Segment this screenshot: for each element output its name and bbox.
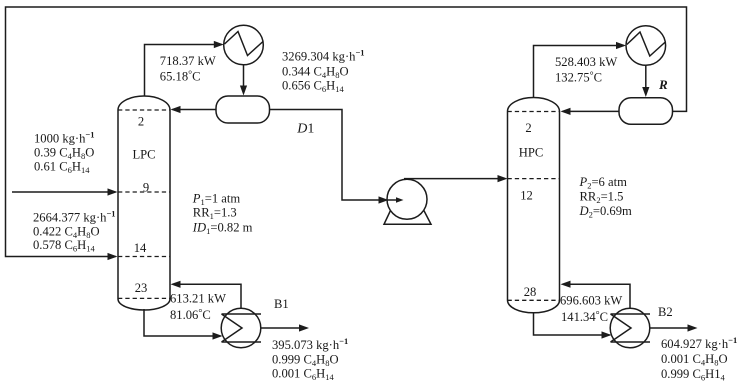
LPC tray 9 dashed line [118, 191, 170, 193]
svg-text:0.001 C6H14: 0.001 C6H14 [272, 366, 335, 382]
HPC top tangent dashed line (stage 2) [508, 111, 560, 113]
wire pump suction stub with arrowheads [379, 196, 404, 203]
wire condenser outlet down into drum R [642, 65, 649, 97]
column HPC shell [508, 98, 560, 313]
svg-text:12: 12 [520, 189, 533, 203]
LPC top tangent dashed line (stage 2) [118, 109, 170, 111]
wire HPC overhead vapor to condenser [534, 42, 627, 98]
svg-text:528.403 kW: 528.403 kW [555, 55, 617, 69]
svg-text:D1: D1 [296, 121, 314, 136]
svg-text:9: 9 [143, 180, 149, 194]
svg-text:B1: B1 [274, 297, 289, 311]
wire reflux from drum to LPC top [171, 106, 217, 113]
condenser (LPC) circle with zigzag [224, 25, 264, 65]
svg-text:1000 kg·h−1: 1000 kg·h−1 [34, 129, 95, 145]
column LPC shell [118, 96, 170, 310]
HPC tray 28 dashed line [508, 299, 560, 301]
reflux drum D1 vessel [216, 96, 270, 123]
svg-text:0.344 C4H8O: 0.344 C4H8O [282, 64, 349, 80]
svg-text:0.001 C4H8O: 0.001 C4H8O [661, 352, 728, 368]
wire B2 bottoms product out [650, 324, 698, 331]
wire pump discharge into HPC tray 12 [404, 175, 508, 182]
svg-text:141.34°C: 141.34°C [561, 310, 608, 324]
reboiler B2 circle [610, 308, 650, 348]
wire B1 vapor return to LPC tray 23 [171, 281, 242, 309]
svg-text:RR1=1.3: RR1=1.3 [193, 206, 237, 222]
label 1000 kg/h feed stream [34, 129, 95, 175]
label 696.603 kW / 141.34 C [560, 293, 622, 323]
svg-text:65.18°C: 65.18°C [160, 70, 201, 84]
reflux drum R vessel [619, 98, 673, 125]
label 604.927 kg/h product stream [661, 335, 737, 382]
reboiler B1 circle [221, 308, 261, 348]
svg-text:0.578 C6H14: 0.578 C6H14 [33, 238, 96, 254]
wire B2 vapor return to HPC tray 28 [561, 281, 631, 309]
svg-text:2: 2 [138, 115, 144, 129]
label 718.37 kW / 65.18 C [160, 54, 216, 84]
svg-text:2664.377 kg·h−1: 2664.377 kg·h−1 [33, 209, 116, 225]
label 2664.377 kg/h recycle stream [33, 209, 116, 254]
pump base mount [384, 202, 431, 224]
svg-text:HPC: HPC [519, 146, 544, 160]
wire HPC bottoms to reboiler B2 [534, 313, 612, 339]
wire reflux from drum R to HPC top [561, 108, 620, 115]
LPC tray 23 dashed line [118, 297, 170, 299]
label 395.073 kg/h product stream [272, 336, 348, 382]
svg-text:LPC: LPC [132, 148, 155, 162]
wire condenser outlet down into reflux drum [240, 65, 247, 96]
svg-text:ID1=0.82 m: ID1=0.82 m [192, 221, 253, 237]
svg-text:81.06°C: 81.06°C [170, 308, 211, 322]
svg-text:23: 23 [135, 281, 148, 295]
label P1 RR1 ID1 [192, 191, 253, 236]
svg-text:718.37 kW: 718.37 kW [160, 54, 216, 68]
svg-text:R: R [658, 77, 668, 92]
wire LPC bottoms to reboiler B1 [144, 309, 223, 340]
svg-text:2: 2 [525, 121, 531, 135]
svg-text:P2=6 atm: P2=6 atm [579, 175, 628, 191]
label 613.21 kW / 81.06 C [170, 291, 226, 322]
svg-text:395.073 kg·h−1: 395.073 kg·h−1 [272, 336, 348, 352]
wire B1 bottoms product out [261, 324, 309, 331]
svg-text:696.603 kW: 696.603 kW [560, 293, 622, 307]
wire LPC overhead vapor to condenser [145, 41, 224, 97]
svg-text:132.75°C: 132.75°C [555, 71, 602, 85]
pump circle [387, 179, 427, 219]
svg-text:613.21 kW: 613.21 kW [170, 291, 226, 305]
HPC tray 12 dashed line [508, 178, 560, 180]
svg-text:604.927 kg·h−1: 604.927 kg·h−1 [661, 335, 737, 351]
svg-text:3269.304 kg·h−1: 3269.304 kg·h−1 [282, 48, 365, 64]
condenser (HPC) circle with zigzag [626, 26, 666, 66]
svg-text:0.656 C6H14: 0.656 C6H14 [282, 79, 345, 95]
wire fresh feed into LPC tray 9 [12, 188, 118, 195]
svg-text:B2: B2 [658, 305, 673, 319]
svg-text:D2=0.69m: D2=0.69m [579, 204, 633, 220]
svg-text:0.61 C6H14: 0.61 C6H14 [34, 159, 90, 175]
svg-text:P1=1 atm: P1=1 atm [192, 191, 241, 207]
svg-text:0.999 C6H14: 0.999 C6H14 [661, 367, 726, 383]
svg-text:28: 28 [524, 285, 537, 299]
wire recycle loop from drum R right side, across top, down left, into LPC tray 14 [6, 7, 687, 260]
label 528.403 kW / 132.75 C [555, 55, 617, 84]
label 3269.304 kg/h stream [282, 48, 365, 94]
LPC tray 14 dashed line [118, 256, 170, 258]
wire distillate D1 from drum to pump [270, 110, 385, 201]
svg-text:14: 14 [134, 241, 147, 255]
label P2 RR2 D2 [579, 175, 633, 220]
svg-text:RR2=1.5: RR2=1.5 [580, 190, 624, 206]
